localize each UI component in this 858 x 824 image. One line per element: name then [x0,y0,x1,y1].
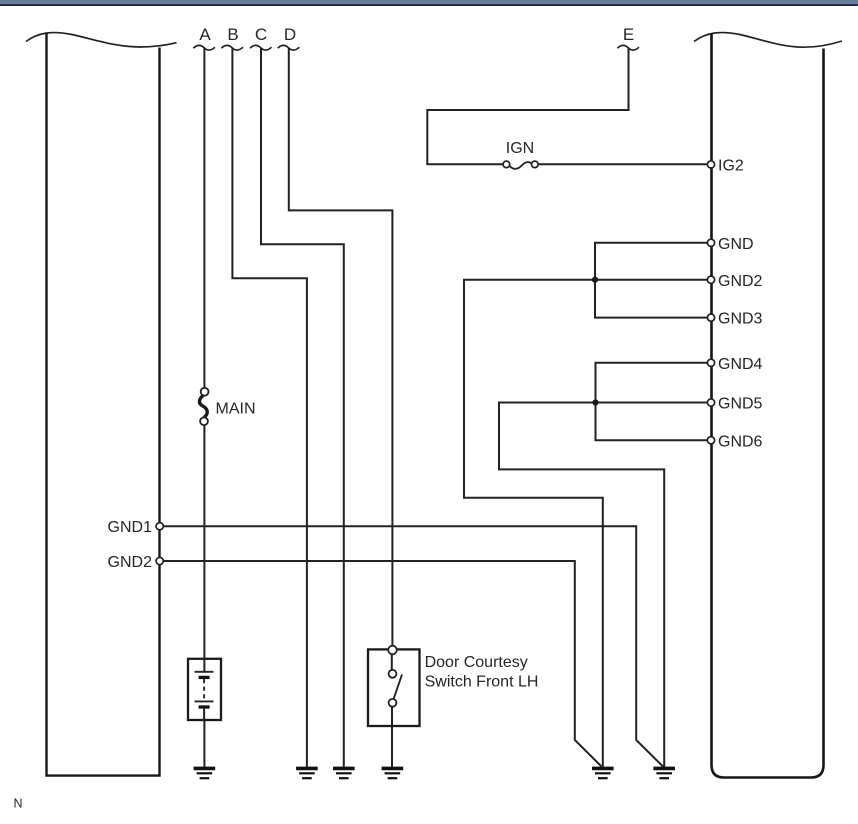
battery internals [203,659,205,672]
terminal GND3 [707,314,714,321]
wire A vertical above MAIN [203,48,205,388]
svg-text:GND2: GND2 [718,273,763,290]
fusible link MAIN [199,395,207,418]
wire A below battery [203,720,205,767]
terminal GND [707,239,714,246]
wire D inside switch (top terminal to pole) [391,654,393,671]
terminal GND4 [707,359,714,366]
svg-text:Switch Front LH: Switch Front LH [425,673,539,690]
wire E down and left to IGN [427,48,628,164]
terminal GND2 (left connector) [156,557,163,564]
node A break symbol [193,45,215,50]
svg-text:C: C [255,25,267,44]
switch Door Courtesy box [368,649,420,726]
svg-text:GND1: GND1 [108,519,153,536]
ground (switch) [382,768,404,778]
svg-text:E: E [623,25,634,44]
junction at GND2 vertical [592,277,598,283]
svg-text:GND5: GND5 [718,396,763,413]
svg-text:N: N [14,797,23,811]
wire A vertical below MAIN [203,425,205,659]
terminal GND1 (left connector) [156,523,163,530]
ground 2 (right) [653,768,675,778]
svg-text:B: B [227,25,238,44]
node C break symbol [250,45,272,50]
switch lever [394,675,402,700]
ground (wire C) [333,768,355,778]
wire IGN fuse to IG2 [539,163,711,165]
wire GND1 from left connector to ground2 [162,526,663,766]
wire C with bend to x344 [261,48,344,767]
svg-text:D: D [284,25,296,44]
svg-text:GND2: GND2 [108,554,153,571]
wire GND2 to ground1 [464,280,711,767]
ground (battery) [194,768,216,778]
node B break symbol [221,45,243,50]
wire D with bend to x392 [289,48,393,649]
wire GND4-GND6 bracket [596,363,712,440]
terminal GND6 [707,437,714,444]
right connector body [712,34,824,778]
wire GND2 from left connector to ground1 [162,561,602,767]
switch terminals [388,646,397,655]
node E break symbol [618,45,640,50]
ground (wire B) [296,768,318,778]
terminal GND5 [707,399,714,406]
battery box [188,659,221,720]
wire GND-GND3 bracket [595,243,711,318]
svg-text:Door Courtesy: Door Courtesy [425,654,528,671]
wire B with bend to x307 [232,48,307,767]
left connector torn-edge wave [26,33,177,47]
top blue bar [0,0,858,4]
terminal GND2 [707,276,714,283]
svg-text:IGN: IGN [506,140,534,157]
svg-text:GND: GND [718,236,754,253]
ground 1 (right) [592,768,614,778]
wire D below switch [391,707,393,767]
svg-text:GND3: GND3 [718,311,763,328]
fuse IGN element [510,162,532,169]
svg-text:MAIN: MAIN [216,401,256,418]
svg-text:GND6: GND6 [718,433,763,450]
svg-text:GND4: GND4 [718,356,763,373]
wire GND5 to ground2 [499,403,711,767]
terminal IG2 [707,161,714,168]
node D break symbol [278,45,300,50]
junction at GND5 vertical [592,399,598,405]
svg-text:IG2: IG2 [718,157,744,174]
right connector torn-edge wave [694,33,842,48]
svg-text:A: A [199,25,211,44]
left connector body [47,34,160,776]
